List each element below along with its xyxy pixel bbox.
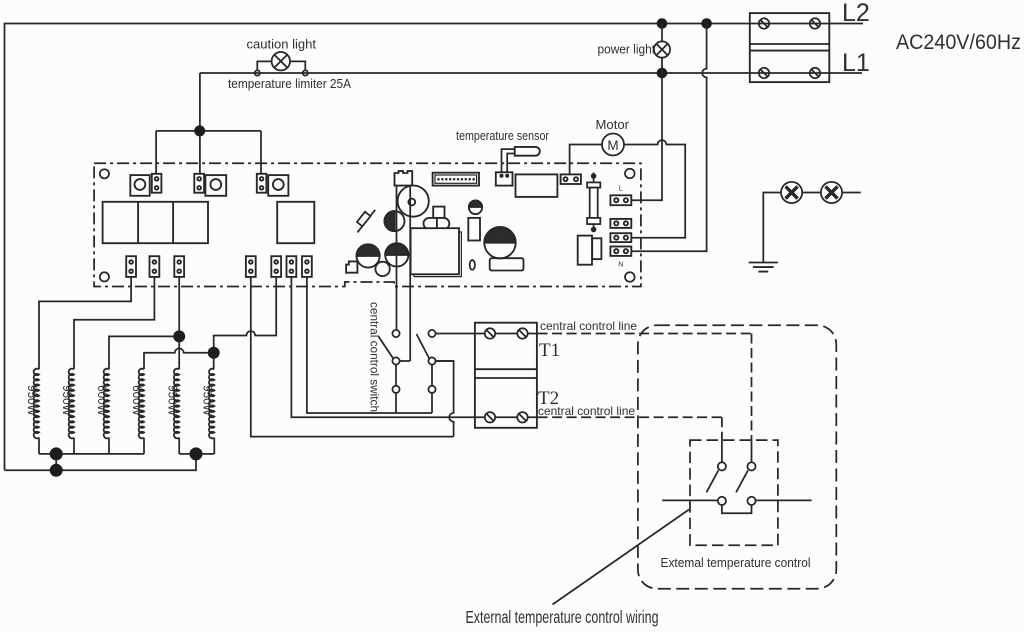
wire: pin3 to coil5 and coil3 <box>109 277 179 369</box>
lamp: power light <box>661 24 663 74</box>
heater element 950W x=39 <box>34 369 39 439</box>
svg-text:Extemal temperature control: Extemal temperature control <box>661 555 811 570</box>
svg-text:950W: 950W <box>25 385 39 416</box>
wire: pin4 to external switch pole B common <box>251 277 454 437</box>
switch S1 pole A <box>379 330 411 393</box>
connector header J2 <box>433 173 479 186</box>
wire: pin7 to switch bottoms <box>307 277 432 413</box>
screw terminal T block (522.5,333.5) <box>517 328 527 338</box>
svg-text:temperature limiter 25A: temperature limiter 25A <box>228 77 352 91</box>
capacitor C5 (standing) <box>578 236 602 265</box>
wire: pin5 to coil6 and coil4 (hops) <box>144 277 276 369</box>
component: small circle <box>375 262 389 276</box>
heater element 950W x=214.3 <box>209 369 214 439</box>
relay contactor K1 <box>130 174 161 196</box>
screw terminal (764,73) <box>759 68 769 78</box>
junction dot bus2/return <box>190 447 203 460</box>
switch S2 pole A <box>707 440 752 513</box>
terminal row L <box>610 195 631 205</box>
resistor R1 (vertical) <box>587 173 600 233</box>
component: rounded rect under C4 <box>490 258 524 270</box>
pin terminal x=306.9 <box>302 256 312 277</box>
junction dot L2/N wire <box>701 18 712 29</box>
screw terminal T block (490,417.3) <box>485 412 495 422</box>
connector J1 (2-prong, to central control switch) <box>395 171 413 186</box>
svg-text:950W: 950W <box>165 385 179 416</box>
junction dot L2/power light <box>657 18 668 29</box>
junction dot return bus/link <box>50 464 63 477</box>
svg-text:950W: 950W <box>60 385 74 416</box>
wire: motor right to board terminal (hop over power light wire) <box>624 140 685 238</box>
wire: lamp pair feed <box>763 193 861 263</box>
svg-text:central control line: central control line <box>538 404 635 418</box>
svg-text:M: M <box>607 138 618 153</box>
svg-text:central control switch: central control switch <box>368 302 382 412</box>
junction dot caution branch <box>194 125 205 136</box>
relay K5 (single) <box>277 202 314 243</box>
capacitor C3 (pill) <box>424 207 450 234</box>
wire: central control switch leads through board <box>397 186 411 361</box>
terminal row 2 <box>610 219 631 228</box>
wire: external switch through line <box>662 499 811 501</box>
wire: caution light bracket <box>257 61 305 70</box>
svg-text:600W: 600W <box>95 385 109 416</box>
wire: pin1 to coil1 <box>39 277 131 369</box>
svg-text:L1: L1 <box>842 49 870 77</box>
temperature limiter terminal left <box>255 70 260 75</box>
terminal block AC input <box>750 13 830 82</box>
junction dot L1/power light <box>657 68 668 79</box>
screw terminal (764,23.5) <box>759 18 769 28</box>
wire: L1 line <box>200 72 750 74</box>
pin terminal x=179.2 <box>174 256 184 277</box>
temperature limiter terminal right <box>303 70 308 75</box>
fuse F1 (diagonal) <box>357 210 375 233</box>
junction dot pin5 branch <box>208 347 220 359</box>
wire: power light to board terminal L <box>631 73 662 200</box>
wire: motor left to board terminal <box>570 145 602 175</box>
screw terminal (815,73) <box>810 68 820 78</box>
external switch box (dashed) <box>690 440 778 545</box>
heater element 950W x=74 <box>69 369 74 439</box>
svg-text:temperature sensor: temperature sensor <box>456 129 549 143</box>
heater element 600W x=144 <box>139 369 144 439</box>
pin terminal x=154.4 <box>150 256 160 277</box>
screw terminal T block (490,333.5) <box>485 328 495 338</box>
pointer line to wiring note <box>553 510 690 605</box>
wire: pin2 to coil2 <box>74 277 154 369</box>
svg-text:T1: T1 <box>539 340 560 361</box>
svg-text:External temperature control w: External temperature control wiring <box>466 607 659 627</box>
capacitor C4 (big, top hatched) <box>484 227 515 258</box>
svg-text:600W: 600W <box>130 385 144 416</box>
svg-text:caution light: caution light <box>247 37 317 52</box>
pin terminal x=276.2 <box>271 256 281 277</box>
wire: heater bottom bus 2 (coils 5-6) <box>179 453 214 455</box>
svg-text:L2: L2 <box>842 0 870 27</box>
junction dot pin3 branch <box>173 330 185 342</box>
wire: L2 top bus + left border <box>5 24 750 471</box>
motor M <box>602 134 624 156</box>
pin terminal x=131.1 <box>126 256 136 277</box>
svg-text:Motor: Motor <box>596 118 630 132</box>
capacitor C2 (top hatched) <box>385 243 408 266</box>
relay contactor K2 <box>194 174 226 196</box>
component: tiny lens <box>470 260 475 270</box>
wire: T1 dashed line to external box <box>538 334 752 441</box>
svg-text:N: N <box>618 262 623 269</box>
wire: pin6 to T2 terminal <box>291 277 537 417</box>
mounting hole (104.4,276.9) <box>100 272 109 281</box>
component: notched square <box>346 261 357 272</box>
transformer T (big square) <box>411 228 462 276</box>
connector J3 (temperature sensor socket) <box>496 172 513 185</box>
lamp: caution light <box>272 52 290 70</box>
switch S1 pole B <box>417 330 475 393</box>
heater element 600W x=109 <box>104 369 109 439</box>
terminal row N <box>610 247 631 256</box>
relay K6 (wide rect) <box>516 174 558 197</box>
mounting hole (104.4,173.8) <box>100 169 109 178</box>
component: tall rect under D2 <box>468 218 480 241</box>
trimpot VR1 (big circle) <box>398 186 429 217</box>
screw terminal (815,23.5) <box>810 18 820 28</box>
screw terminal T block (522.5,417.3) <box>517 412 527 422</box>
wire: heater bottom bus 1 (coils 1-4) <box>39 453 144 455</box>
temperature sensor bulb <box>515 147 540 156</box>
terminal: motor connector <box>561 174 581 184</box>
lamp: heater indicator 2 <box>821 182 842 203</box>
switch S2 pole B <box>736 440 756 505</box>
lamp: heater indicator 1 <box>781 182 802 203</box>
ground <box>749 263 778 272</box>
wire: sensor leads <box>502 149 515 174</box>
mounting hole (629.8,173.5) <box>625 169 635 179</box>
wire: caution light drop from L1 to junction <box>199 73 201 174</box>
relay contactor K3 <box>257 174 289 196</box>
svg-text:AC240V/60Hz: AC240V/60Hz <box>896 31 1021 54</box>
terminal row 3 <box>610 233 631 242</box>
pin terminal x=291.4 <box>287 256 297 277</box>
pin terminal x=250.8 <box>246 256 256 277</box>
svg-text:L: L <box>619 186 623 193</box>
junction dot bus1/link <box>50 447 63 460</box>
svg-text:950W: 950W <box>201 385 215 416</box>
PCB board outline <box>94 163 641 286</box>
svg-text:power light: power light <box>598 43 656 57</box>
heater element 950W x=179.2 <box>174 369 179 439</box>
component: small half-dark circle D2 <box>469 200 482 214</box>
wire: L1 stub to label <box>829 72 862 74</box>
relay block K4 (triple) <box>103 202 208 243</box>
svg-text:central control line: central control line <box>540 319 637 333</box>
component: half-dark circle D1 <box>385 211 405 231</box>
wire: neutral from L2 to board terminal N (hop over L1) <box>631 24 706 252</box>
capacitor C1 (top hatched) <box>357 244 380 267</box>
terminal block T1/T2 <box>475 323 537 428</box>
mounting hole (629.8,277) <box>625 272 635 282</box>
wire: L2 stub to label <box>829 23 863 25</box>
wire: return bus to left border <box>5 454 197 470</box>
external control boundary (dashed rounded box) <box>638 325 836 589</box>
wire: relay coil feed branch <box>156 131 261 174</box>
wire: T2 dashed line to external box <box>538 417 722 440</box>
